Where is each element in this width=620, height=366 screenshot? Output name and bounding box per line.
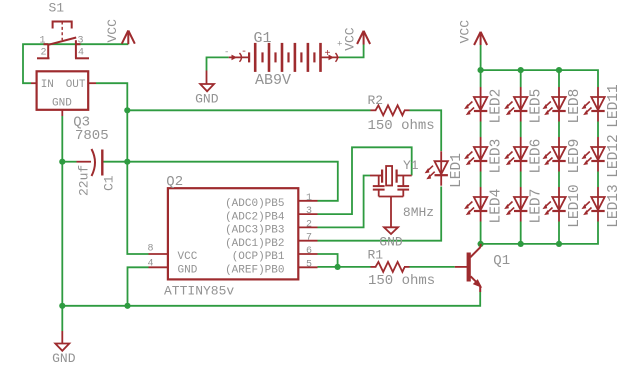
svg-text:Q1: Q1 [493,253,510,269]
svg-text:8MHz: 8MHz [403,205,434,220]
svg-text:-: - [224,48,229,58]
svg-text:VCC: VCC [105,19,120,43]
svg-text:LED13: LED13 [606,184,620,228]
svg-text:LED4: LED4 [489,189,505,224]
svg-text:1: 1 [40,36,46,47]
svg-text:22uf: 22uf [77,165,92,196]
svg-text:3: 3 [306,206,312,217]
svg-text:8: 8 [148,244,154,255]
svg-text:6: 6 [306,246,312,257]
svg-text:GND: GND [178,265,198,277]
svg-text:LED12: LED12 [606,134,620,178]
svg-text:4: 4 [148,259,154,270]
svg-text:LED10: LED10 [567,184,583,228]
svg-text:7805: 7805 [75,128,109,144]
svg-text:(ADC1)PB2: (ADC1)PB2 [225,238,284,250]
svg-text:IN: IN [41,79,54,91]
svg-text:3: 3 [78,36,84,47]
svg-text:ATTINY85v: ATTINY85v [164,284,234,299]
svg-text:GND: GND [379,235,403,250]
svg-text:LED1: LED1 [449,153,465,188]
svg-text:-: - [241,47,247,58]
svg-text:150 ohms: 150 ohms [368,273,435,289]
svg-text:VCC: VCC [343,27,358,51]
svg-text:4: 4 [78,48,84,59]
svg-text:G1: G1 [254,30,272,47]
svg-text:LED7: LED7 [529,189,545,224]
svg-text:(ADC3)PB3: (ADC3)PB3 [225,225,284,237]
svg-text:2: 2 [306,219,312,230]
svg-text:150 ohms: 150 ohms [368,118,435,134]
svg-text:7: 7 [306,233,312,244]
svg-text:GND: GND [195,92,219,107]
svg-text:C1: C1 [102,175,117,191]
svg-text:GND: GND [52,351,76,366]
svg-text:OUT: OUT [66,79,86,91]
svg-text:2: 2 [41,48,47,59]
svg-text:GND: GND [52,98,72,110]
svg-text:(AREF)PB0: (AREF)PB0 [225,265,284,277]
svg-text:Q2: Q2 [166,174,183,190]
svg-text:LED8: LED8 [567,89,583,124]
svg-text:LED9: LED9 [567,139,583,174]
svg-text:Y1: Y1 [403,158,419,173]
svg-text:5: 5 [306,259,312,270]
svg-text:S1: S1 [49,1,65,16]
svg-text:+: + [325,49,331,60]
svg-text:LED5: LED5 [529,89,545,124]
svg-text:1: 1 [306,193,312,204]
svg-text:VCC: VCC [458,20,473,44]
svg-text:LED2: LED2 [489,89,505,124]
svg-text:R1: R1 [368,248,384,263]
svg-text:R2: R2 [368,93,384,108]
svg-text:(OCP)PB1: (OCP)PB1 [232,251,285,263]
svg-text:VCC: VCC [178,251,198,263]
svg-text:(ADC0)PB5: (ADC0)PB5 [225,198,284,210]
svg-text:LED6: LED6 [529,139,545,174]
svg-text:LED11: LED11 [606,84,620,128]
svg-text:LED3: LED3 [489,139,505,174]
svg-text:(ADC2)PB4: (ADC2)PB4 [225,211,285,223]
svg-text:AB9V: AB9V [255,72,291,89]
